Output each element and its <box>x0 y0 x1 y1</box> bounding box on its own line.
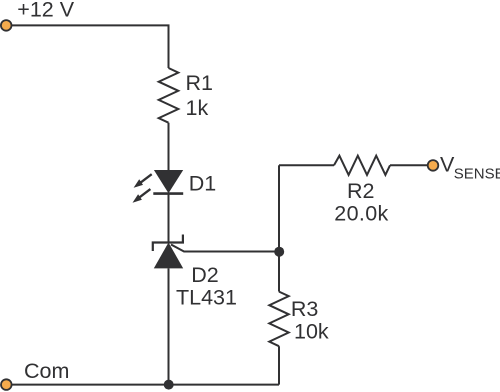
svg-text:R3: R3 <box>291 297 319 321</box>
svg-text:+12 V: +12 V <box>17 0 74 22</box>
resistor R2 <box>334 156 390 175</box>
svg-text:D2: D2 <box>191 263 218 287</box>
svg-text:10k: 10k <box>294 320 329 344</box>
LED D1 triangle <box>154 170 183 193</box>
svg-text:TL431: TL431 <box>176 286 237 310</box>
wire R1 to D1 <box>168 123 170 170</box>
LED D1 arrow 1 <box>134 174 152 188</box>
resistor R3 <box>269 292 288 347</box>
svg-text:V: V <box>440 153 455 177</box>
node dot bottom rail <box>164 380 174 390</box>
wire R2 to Vsense terminal <box>390 164 428 166</box>
wire TL431 ref to node <box>171 245 279 252</box>
wire bottom rail <box>11 384 279 386</box>
svg-text:20.0k: 20.0k <box>334 202 388 226</box>
svg-text:SENSE: SENSE <box>454 165 500 182</box>
TL431 D2 triangle <box>154 243 183 269</box>
wire top from +12V terminal to R1 <box>11 25 168 68</box>
wire D2 anode to bottom rail <box>168 268 170 384</box>
terminal Com <box>1 379 12 390</box>
TL431 D2 cathode bar with ticks <box>153 235 183 252</box>
terminal +12V <box>1 20 12 31</box>
resistor R1 <box>159 68 179 123</box>
svg-text:R1: R1 <box>186 71 213 95</box>
svg-text:Com: Com <box>24 359 69 383</box>
wire node to R2 <box>279 164 334 166</box>
svg-text:1k: 1k <box>186 96 209 120</box>
wire vertical sense branch <box>278 165 280 291</box>
terminal Vsense <box>428 160 439 171</box>
node dot ref junction <box>274 247 284 257</box>
wire R3 to bottom rail <box>278 346 280 384</box>
LED D1 arrow 2 <box>133 189 151 203</box>
svg-text:R2: R2 <box>347 179 374 203</box>
LED D1 cathode bar <box>153 192 183 195</box>
svg-text:D1: D1 <box>189 171 216 195</box>
wire D1 to D2 <box>168 193 170 242</box>
